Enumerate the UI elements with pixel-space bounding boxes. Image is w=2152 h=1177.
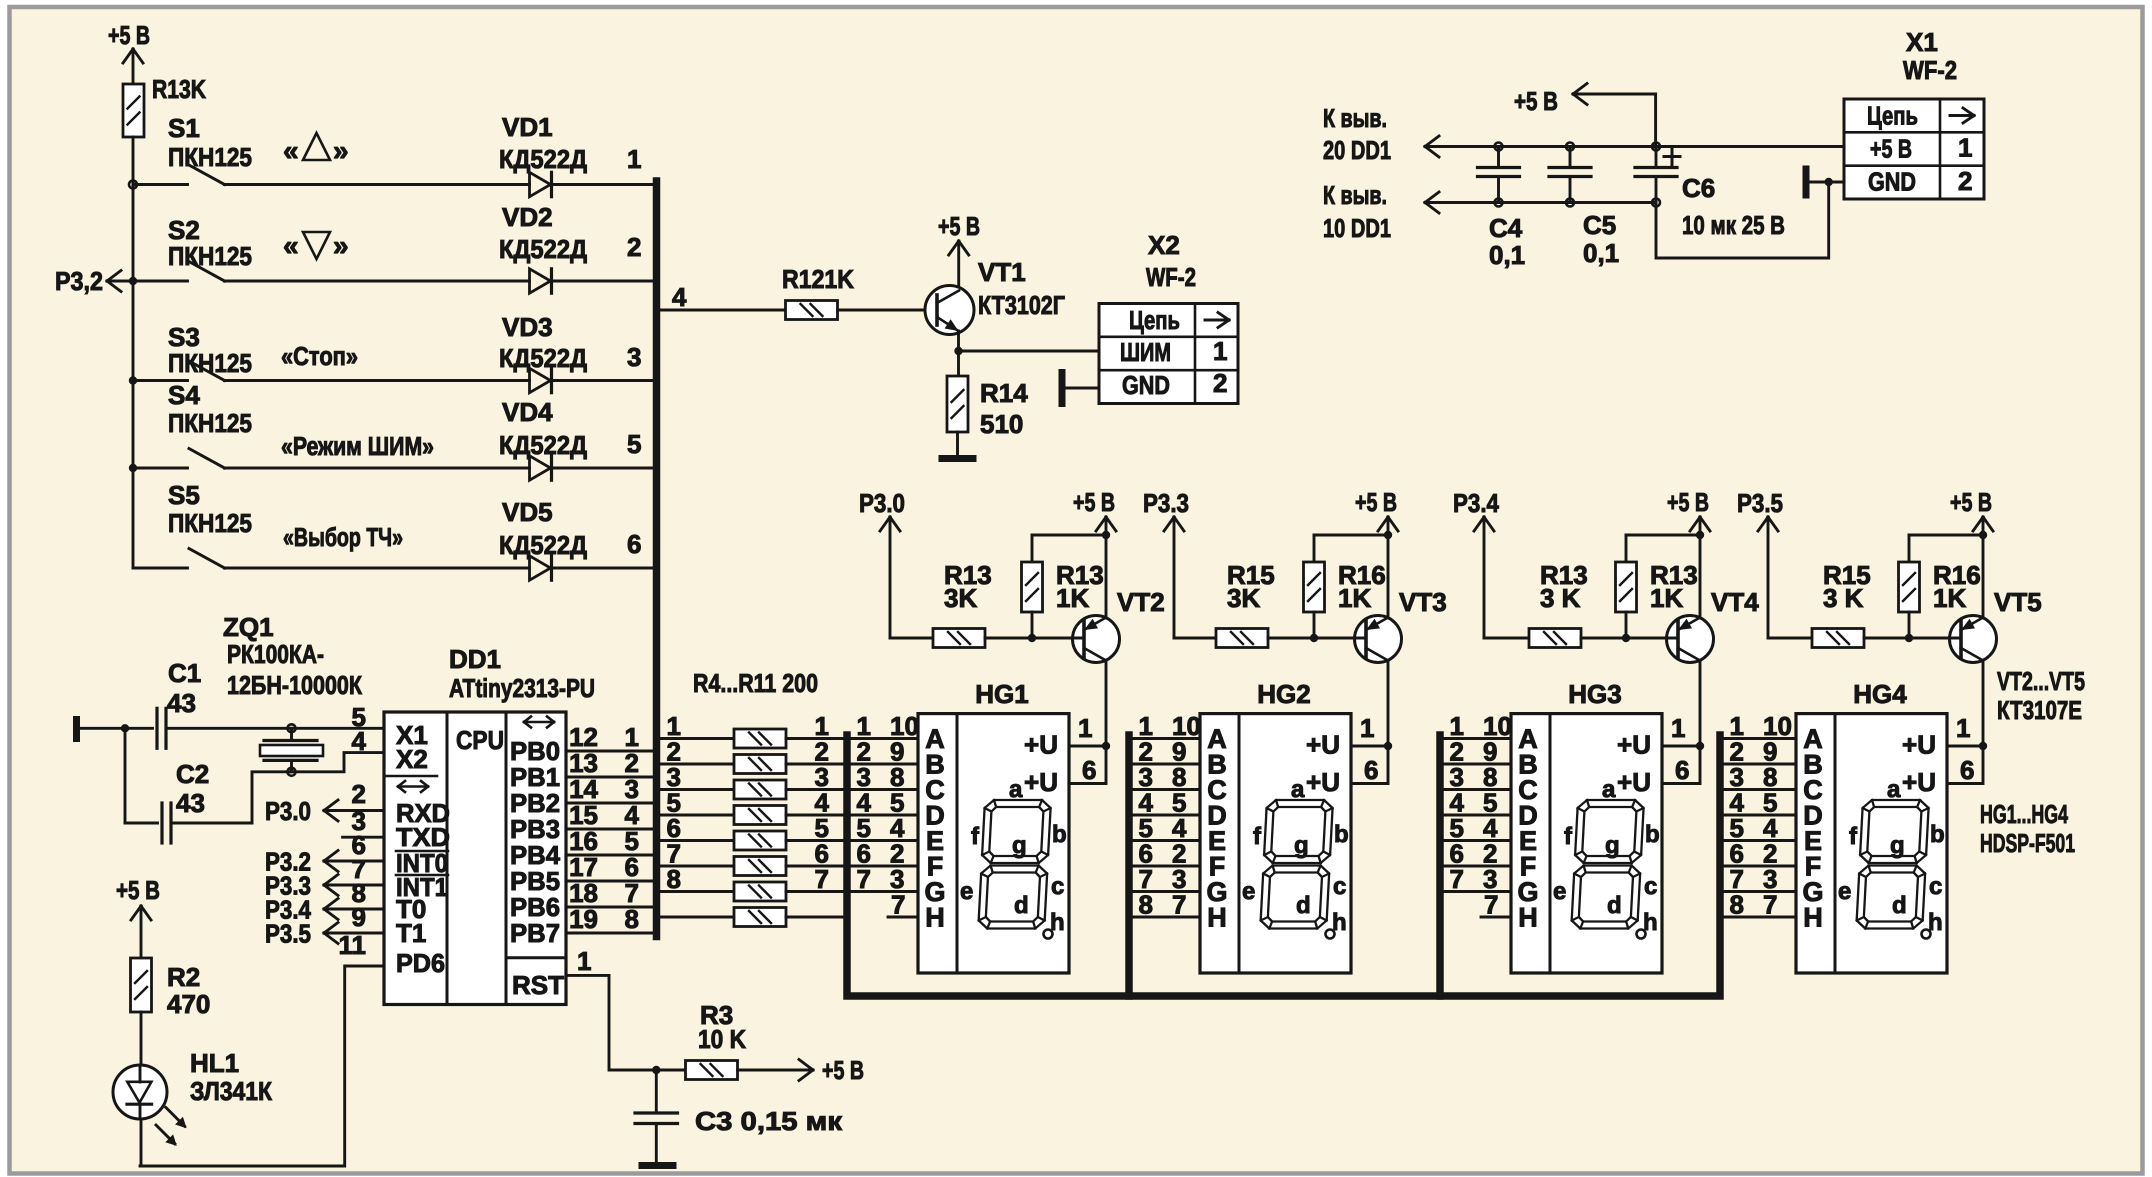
svg-text:3 K: 3 K [1540,583,1581,613]
svg-text:+U: +U [1617,767,1651,797]
svg-text:C1: C1 [168,658,201,688]
svg-text:b: b [1645,821,1660,848]
svg-text:Р3.5: Р3.5 [1737,488,1783,518]
svg-text:+U: +U [1617,730,1651,760]
svg-text:c: c [1929,873,1942,900]
svg-text:6: 6 [1364,755,1378,785]
svg-text:+5 В: +5 В [1950,487,1992,517]
svg-text:0,1: 0,1 [1583,238,1619,268]
svg-text:T1: T1 [396,918,426,948]
svg-text:+5 В: +5 В [1667,487,1709,517]
svg-text:CPU: CPU [456,725,504,755]
svg-text:C2: C2 [176,759,209,789]
svg-text:5: 5 [627,429,641,459]
svg-text:11: 11 [339,930,367,960]
svg-text:10 DD1: 10 DD1 [1323,213,1391,243]
svg-text:6: 6 [1082,755,1096,785]
svg-text:d: d [1892,892,1907,919]
svg-text:HDSP-F501: HDSP-F501 [1980,828,2075,858]
svg-text:1K: 1K [1650,583,1683,613]
svg-text:19: 19 [569,904,598,934]
svg-text:КТ3102Г: КТ3102Г [978,290,1065,320]
svg-text:a: a [1009,776,1023,803]
svg-text:+U: +U [1024,767,1058,797]
svg-text:+5 В: +5 В [822,1055,864,1085]
svg-text:2: 2 [627,232,641,262]
svg-text:«Выбор ТЧ»: «Выбор ТЧ» [283,522,403,552]
svg-text:8: 8 [667,864,681,894]
svg-text:GND: GND [1868,167,1916,197]
svg-text:PB7: PB7 [510,918,560,948]
svg-text:VT5: VT5 [1994,587,2042,617]
svg-text:c: c [1333,873,1346,900]
svg-text:ЗЛ341К: ЗЛ341К [190,1076,272,1106]
svg-text:1: 1 [1078,713,1092,743]
svg-text:1: 1 [627,144,641,174]
svg-text:VT2...VT5: VT2...VT5 [1997,666,2085,696]
svg-text:f: f [971,823,980,850]
svg-text:S1: S1 [168,113,200,143]
svg-text:g: g [1012,832,1027,859]
svg-text:«: « [283,135,299,166]
svg-text:510: 510 [980,409,1023,439]
svg-text:Р3.4: Р3.4 [1453,488,1499,518]
svg-text:X2: X2 [1148,230,1180,260]
svg-text:d: d [1014,892,1029,919]
svg-text:R121K: R121K [782,264,854,294]
svg-text:43: 43 [176,788,205,818]
svg-text:e: e [1838,878,1851,905]
svg-text:g: g [1294,832,1309,859]
svg-text:a: a [1887,776,1901,803]
svg-text:6: 6 [1960,755,1974,785]
svg-text:7: 7 [857,864,871,894]
svg-text:VD4: VD4 [502,397,553,427]
svg-text:R13K: R13K [152,74,206,104]
svg-text:2: 2 [1213,368,1227,398]
svg-text:H: H [925,903,945,933]
svg-text:f: f [1849,823,1858,850]
svg-text:+U: +U [1902,730,1936,760]
svg-text:+5 В: +5 В [938,211,980,241]
svg-text:R14: R14 [980,378,1028,408]
svg-text:ATtiny2313-PU: ATtiny2313-PU [449,673,595,703]
svg-text:2: 2 [352,779,366,809]
svg-text:C6: C6 [1682,173,1715,203]
svg-text:»: » [333,230,349,261]
svg-text:КД522Д: КД522Д [499,234,587,264]
svg-text:S5: S5 [168,480,200,510]
svg-text:b: b [1930,821,1945,848]
svg-text:1K: 1K [1338,583,1371,613]
svg-text:X2: X2 [396,744,428,774]
svg-text:1: 1 [1671,713,1685,743]
svg-text:20 DD1: 20 DD1 [1323,135,1391,165]
svg-text:1K: 1K [1056,583,1089,613]
svg-text:ПКН125: ПКН125 [168,348,252,378]
svg-text:b: b [1052,821,1067,848]
svg-text:f: f [1253,823,1262,850]
svg-text:R2: R2 [167,962,200,992]
svg-text:d: d [1296,892,1311,919]
svg-text:7: 7 [1484,890,1498,920]
svg-text:g: g [1605,832,1620,859]
svg-text:ПКН125: ПКН125 [168,408,252,438]
svg-text:С3 0,15 мк: С3 0,15 мк [695,1106,843,1136]
svg-text:«Режим ШИМ»: «Режим ШИМ» [281,431,434,461]
svg-text:+5 В: +5 В [1870,134,1912,164]
svg-text:10 мк 25 В: 10 мк 25 В [1682,210,1785,240]
svg-text:VD1: VD1 [502,112,553,142]
svg-text:1: 1 [1956,713,1970,743]
svg-text:«: « [283,230,299,261]
svg-text:d: d [1607,892,1622,919]
svg-text:GND: GND [1122,370,1170,400]
svg-text:VD3: VD3 [502,312,553,342]
svg-text:1: 1 [1360,713,1374,743]
svg-text:+U: +U [1306,767,1340,797]
svg-text:H: H [1207,903,1227,933]
svg-text:7: 7 [1450,864,1464,894]
svg-text:DD1: DD1 [449,644,501,674]
svg-text:+5 В: +5 В [1355,487,1397,517]
svg-text:c: c [1644,873,1657,900]
svg-text:0,1: 0,1 [1489,240,1525,270]
svg-text:Р3.3: Р3.3 [1143,488,1189,518]
svg-text:ШИМ: ШИМ [1120,337,1171,367]
svg-text:Р3,2: Р3,2 [55,266,103,296]
svg-text:ZQ1: ZQ1 [223,612,274,642]
svg-text:1: 1 [577,946,591,976]
svg-text:HG1...HG4: HG1...HG4 [1980,799,2068,829]
svg-text:VT2: VT2 [1117,587,1165,617]
svg-text:8: 8 [625,904,639,934]
svg-text:7: 7 [1172,890,1186,920]
svg-text:4: 4 [672,282,687,312]
svg-text:c: c [1051,873,1064,900]
svg-text:VD5: VD5 [502,497,553,527]
svg-text:10 K: 10 K [698,1024,746,1054]
svg-text:КД522Д: КД522Д [499,343,587,373]
svg-text:3 K: 3 K [1823,583,1864,613]
svg-text:HG4: HG4 [1853,679,1907,709]
svg-text:g: g [1890,832,1905,859]
svg-text:КД522Д: КД522Д [499,530,587,560]
svg-text:b: b [1334,821,1349,848]
svg-text:RST: RST [512,970,564,1000]
svg-text:WF-2: WF-2 [1903,55,1957,85]
svg-text:a: a [1602,776,1616,803]
svg-text:HG2: HG2 [1257,679,1310,709]
svg-text:S4: S4 [168,380,200,410]
svg-text:К выв.: К выв. [1323,103,1387,133]
svg-text:ПКН125: ПКН125 [168,508,252,538]
svg-text:1: 1 [1213,336,1227,366]
svg-text:C4: C4 [1489,213,1523,243]
svg-text:Р3.5: Р3.5 [265,919,311,949]
svg-text:Цепь: Цепь [1867,101,1918,131]
svg-text:+5 В: +5 В [116,875,160,905]
svg-text:a: a [1291,776,1305,803]
svg-text:ПКН125: ПКН125 [168,142,252,172]
svg-text:+U: +U [1306,730,1340,760]
svg-text:Р3.0: Р3.0 [265,796,311,826]
svg-text:HL1: HL1 [190,1048,239,1078]
svg-text:VT4: VT4 [1711,587,1759,617]
svg-text:1K: 1K [1933,583,1966,613]
svg-text:X1: X1 [1906,27,1938,57]
svg-text:e: e [1553,878,1566,905]
svg-text:7: 7 [891,890,905,920]
svg-text:+5 В: +5 В [1514,86,1558,116]
svg-text:КД522Д: КД522Д [499,144,587,174]
svg-text:e: e [1242,878,1255,905]
svg-text:VT3: VT3 [1399,587,1447,617]
svg-text:+U: +U [1024,730,1058,760]
svg-text:КТ3107Е: КТ3107Е [1997,695,2082,725]
svg-text:470: 470 [167,989,210,1019]
svg-text:3K: 3K [944,583,977,613]
svg-text:4: 4 [352,726,367,756]
svg-text:R4...R11 200: R4...R11 200 [693,668,818,698]
svg-text:«Стоп»: «Стоп» [281,341,358,371]
svg-text:H: H [1803,903,1823,933]
svg-text:HG3: HG3 [1568,679,1621,709]
svg-text:8: 8 [1730,890,1744,920]
svg-text:2: 2 [1958,166,1972,196]
svg-text:PD6: PD6 [396,948,445,978]
svg-text:7: 7 [1763,890,1777,920]
svg-text:9: 9 [352,902,366,932]
svg-text:К выв.: К выв. [1323,180,1387,210]
svg-text:+U: +U [1902,767,1936,797]
svg-text:HG1: HG1 [975,679,1028,709]
svg-text:6: 6 [1675,755,1689,785]
svg-text:6: 6 [627,529,641,559]
svg-text:»: » [333,135,349,166]
svg-text:КД522Д: КД522Д [499,430,587,460]
svg-text:VT1: VT1 [978,257,1026,287]
svg-text:3K: 3K [1227,583,1260,613]
svg-text:C5: C5 [1583,210,1616,240]
svg-text:ПКН125: ПКН125 [168,241,252,271]
svg-text:VD2: VD2 [502,202,553,232]
svg-text:H: H [1518,903,1538,933]
svg-text:3: 3 [627,342,641,372]
svg-text:e: e [960,878,973,905]
svg-text:f: f [1564,823,1573,850]
svg-text:12БН-10000К: 12БН-10000К [227,670,362,700]
svg-text:РК100КА-: РК100КА- [227,639,324,669]
svg-text:+5 В: +5 В [1073,487,1115,517]
svg-text:WF-2: WF-2 [1146,262,1196,292]
svg-text:8: 8 [1139,890,1153,920]
svg-text:43: 43 [167,688,196,718]
svg-text:7: 7 [815,864,829,894]
svg-text:Цепь: Цепь [1129,305,1180,335]
svg-text:+5 В: +5 В [108,20,150,50]
svg-text:1: 1 [1958,133,1972,163]
svg-text:Р3.0: Р3.0 [859,488,905,518]
